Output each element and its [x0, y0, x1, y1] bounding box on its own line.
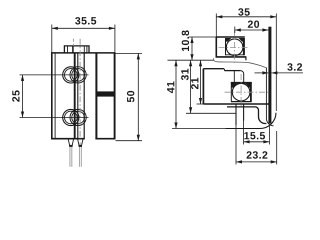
dim 3.2	[255, 72, 304, 74]
door break S-curve	[214, 58, 267, 67]
dimension text 31	[181, 75, 188, 80]
dim 50	[137, 53, 139, 140]
upper crosshair / 25 extension line	[20, 74, 89, 76]
top edge extension to 50 dim	[116, 52, 143, 54]
tab inner line b	[72, 46, 74, 53]
lower block top edge	[203, 68, 224, 70]
block bottom extension left for 21	[197, 103, 204, 105]
black slot on profile	[96, 91, 114, 96]
dimension text 20	[248, 20, 253, 27]
nut1 square	[226, 38, 245, 56]
upper screw outer circle right	[70, 67, 86, 83]
dim 10.8	[191, 37, 193, 60]
dim 35 top	[216, 14, 276, 112]
pin 1	[68, 139, 73, 166]
dim 20	[235, 27, 269, 34]
dim 25	[22, 75, 24, 118]
leaf bend outer arc	[240, 71, 243, 83]
bend inner line extension for 31	[186, 112, 236, 114]
bend outer vertical below block	[235, 104, 237, 125]
mid plate edge thin	[77, 53, 79, 139]
lower screw inner circle right	[72, 111, 85, 124]
lower screw outer circle right	[70, 109, 86, 125]
dimension text 10.8	[182, 46, 189, 51]
nut1 circle	[226, 39, 243, 56]
nut1 centerlines	[234, 31, 236, 65]
upper screw inner circle left	[65, 69, 78, 82]
bottom edge left segment	[51, 138, 85, 140]
dimension text 21	[191, 84, 198, 89]
upper screw outer circle left	[63, 67, 79, 83]
dimension text 35	[238, 8, 243, 15]
nut2 circle	[232, 83, 250, 101]
lower screw inner circle left	[65, 111, 78, 124]
nut2 square	[231, 83, 252, 102]
dimension text 3.2	[287, 63, 292, 70]
profile right edge	[114, 52, 116, 139]
flange bottom right nub	[245, 57, 247, 60]
leaf right edge	[83, 53, 85, 139]
tab inner line c	[83, 46, 85, 53]
bottom edge right segment	[95, 138, 115, 140]
nut2 bottom line	[231, 101, 252, 103]
flange left edge extension up for 35	[215, 14, 217, 38]
hook outer bottom line	[225, 113, 276, 129]
leaf right thin vertical	[266, 68, 273, 126]
leaf bend vertical (hidden behind nut)	[233, 71, 235, 83]
door plate black bar	[268, 27, 271, 124]
leaf top surface	[225, 70, 241, 72]
hook bottom extension left for 41	[172, 128, 225, 130]
dimension text 41	[167, 87, 174, 93]
lower block left edge	[202, 69, 204, 104]
step between block top and leaf segment	[224, 69, 226, 71]
door surface extension line left	[168, 59, 214, 61]
dimension text 15.5	[244, 132, 249, 139]
dim 31	[190, 60, 192, 113]
tab inner line a	[67, 46, 69, 53]
left plate outer edge	[51, 52, 53, 139]
tab inner line d	[86, 46, 88, 53]
top edge extension left for 10.8	[189, 36, 217, 38]
nut2 centerlines	[240, 74, 242, 107]
profile left edge	[95, 53, 97, 139]
mid plate edge thick	[74, 53, 76, 139]
lower lip line	[227, 107, 266, 124]
body top edge	[51, 52, 116, 54]
dim 35.5	[52, 25, 115, 53]
pin 2	[78, 139, 83, 166]
dim 15.5	[244, 121, 270, 145]
dim 41	[175, 60, 177, 128]
lower block bottom edge	[203, 103, 268, 105]
left plate inner edge	[54, 54, 56, 139]
vertical centerline dashed	[79, 39, 81, 146]
lower crosshair / 25 extension line	[20, 117, 89, 119]
dim 21	[200, 60, 202, 104]
flange bottom edge	[216, 56, 247, 58]
dimension text 25	[12, 97, 19, 102]
flange left edge	[215, 37, 217, 57]
dimension text 35.5	[75, 17, 80, 24]
lower screw outer circle left	[63, 109, 79, 125]
short dashed line above tab	[72, 39, 74, 46]
dim 23.2	[236, 125, 277, 164]
dimension text 23.2	[247, 151, 252, 158]
nut1 bottom line	[225, 54, 244, 56]
upper screw inner circle right	[72, 69, 85, 82]
top tab outline	[64, 46, 89, 53]
bend inner vertical below block	[243, 104, 245, 121]
dimension text 50	[127, 97, 134, 102]
top edge	[216, 36, 245, 38]
bottom extension to 50 dim	[116, 140, 143, 142]
